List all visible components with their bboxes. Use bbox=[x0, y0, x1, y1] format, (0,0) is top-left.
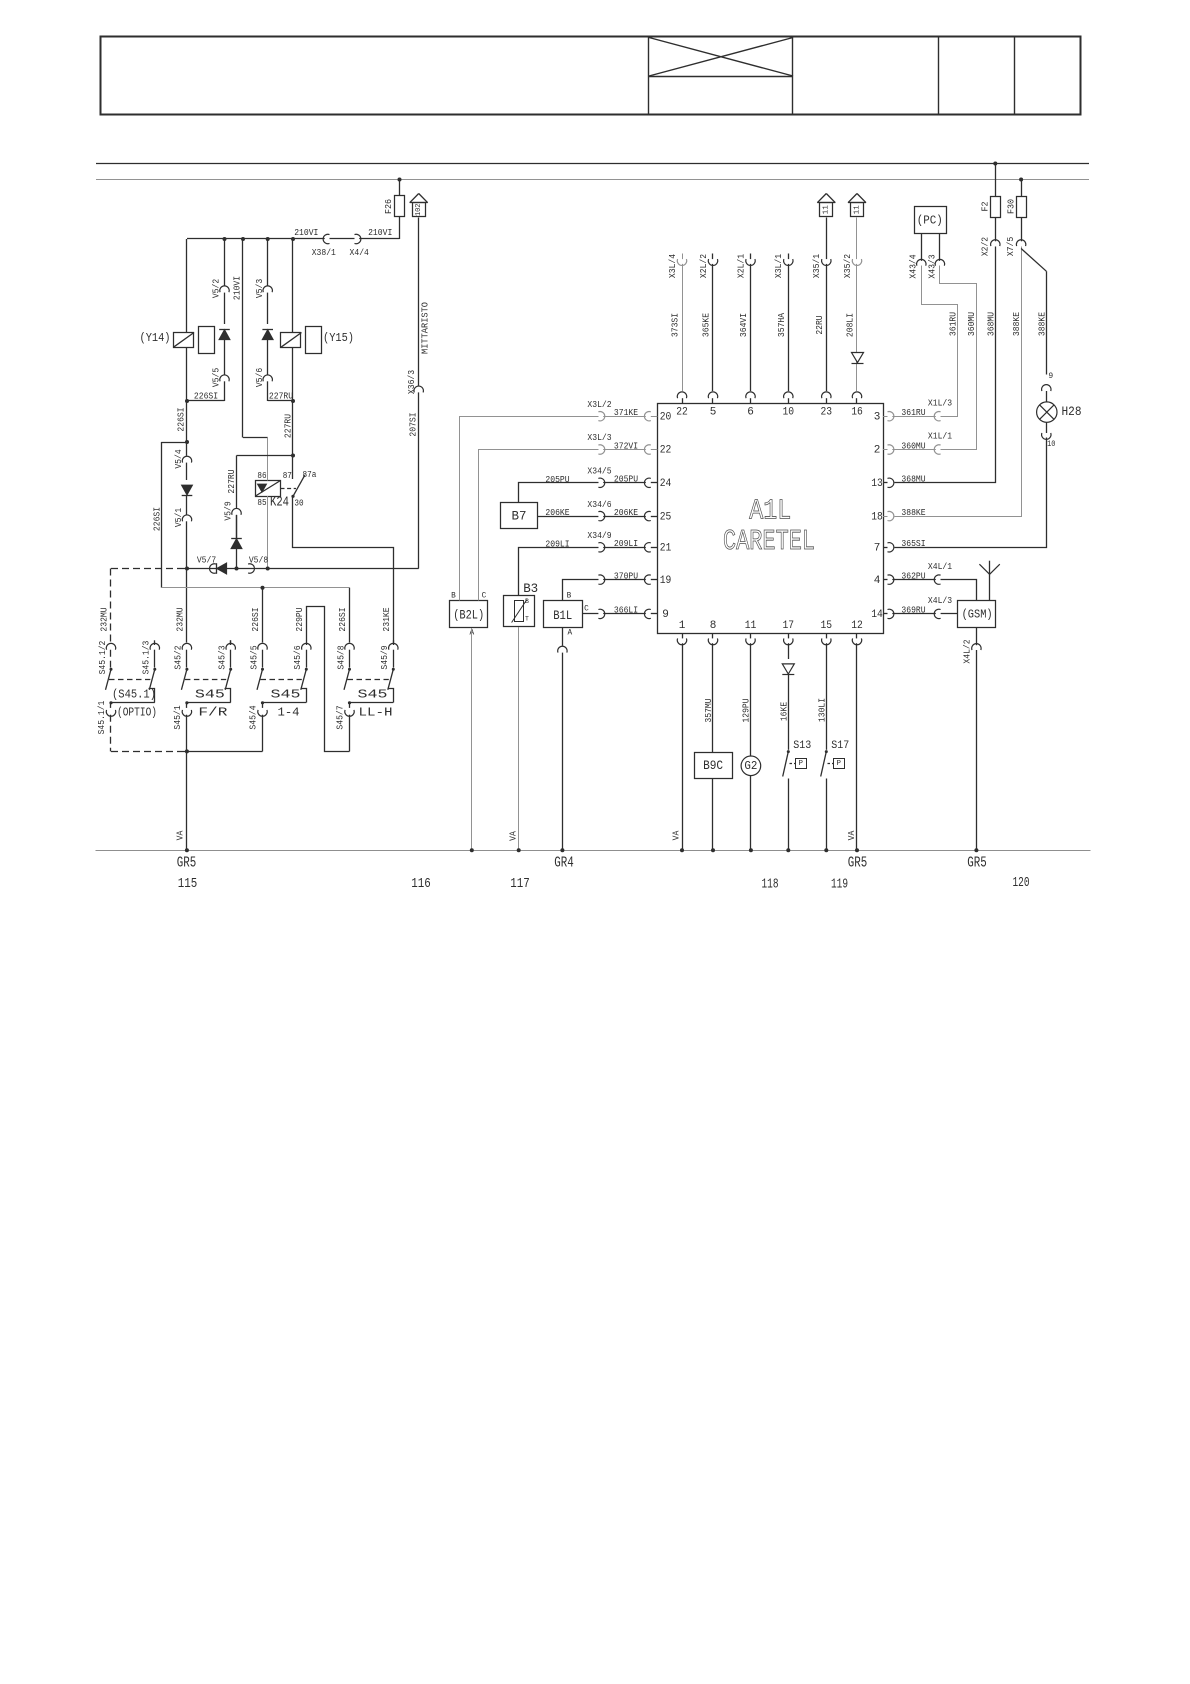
svg-text:B: B bbox=[567, 592, 572, 600]
wire: second supply rail (gray) bbox=[96, 179, 1089, 181]
node: F30 tap on gray rail bbox=[1019, 178, 1023, 182]
svg-text:227RU: 227RU bbox=[226, 469, 237, 493]
svg-text:X1L/1: X1L/1 bbox=[928, 431, 953, 442]
connector V5/3 bbox=[263, 286, 272, 292]
svg-text:V5/5: V5/5 bbox=[211, 368, 222, 387]
wire: 210VI to relay K24 (x=243) bbox=[241, 237, 245, 241]
svg-text:232MU: 232MU bbox=[175, 607, 186, 631]
svg-text:205PU: 205PU bbox=[545, 474, 569, 485]
connector S45/7 bbox=[345, 710, 354, 716]
connector X43/3 bbox=[939, 233, 941, 261]
svg-text:F30: F30 bbox=[1005, 199, 1016, 214]
diode across Y15 coil bbox=[262, 330, 273, 340]
mechanical link S45 bbox=[185, 679, 226, 681]
svg-text:S45/1: S45/1 bbox=[172, 705, 183, 730]
diode on 208LI wire (open, pointing down) bbox=[852, 353, 864, 363]
svg-text:209LI: 209LI bbox=[545, 538, 569, 549]
svg-text:S45: S45 bbox=[358, 687, 388, 701]
svg-text:18: 18 bbox=[871, 511, 883, 523]
wire: B1L pin A to ground via connector bbox=[562, 628, 564, 646]
svg-text:X35/1: X35/1 bbox=[811, 253, 822, 278]
svg-text:V5/3: V5/3 bbox=[254, 279, 265, 298]
connector pair at A1L pin 24 (205PU) bbox=[598, 478, 604, 487]
svg-text:X1L/3: X1L/3 bbox=[928, 397, 952, 408]
contact blade S45 left bbox=[181, 669, 187, 690]
svg-text:19: 19 bbox=[660, 575, 672, 587]
wire: Y14 coil feed (vertical x=187) bbox=[186, 239, 188, 333]
svg-text:1-4: 1-4 bbox=[278, 706, 300, 720]
wire: V5/3 parallel diode branch of Y15 bbox=[266, 237, 270, 241]
svg-text:226SI: 226SI bbox=[176, 407, 187, 431]
svg-text:VA: VA bbox=[671, 830, 682, 840]
svg-text:T: T bbox=[525, 616, 529, 623]
svg-text:364VI: 364VI bbox=[738, 313, 749, 337]
svg-text:X4L/3: X4L/3 bbox=[928, 595, 952, 606]
svg-text:208LI: 208LI bbox=[845, 313, 856, 337]
connector V5/5 bbox=[220, 375, 229, 381]
svg-text:S45.1/2: S45.1/2 bbox=[97, 641, 108, 675]
mechanical link (S45.1) bbox=[109, 679, 150, 681]
svg-text:X3L/4: X3L/4 bbox=[667, 253, 678, 278]
fuse F2 bbox=[995, 164, 997, 197]
contact blade (S45.1) right bbox=[149, 669, 155, 690]
diode on 16KE wire (open, pointing down) bbox=[782, 664, 794, 674]
svg-text:X43/3: X43/3 bbox=[926, 254, 937, 278]
frame: title block divider lines bbox=[648, 37, 650, 115]
svg-text:357MU: 357MU bbox=[703, 698, 714, 722]
wire: top supply rail (dark) bbox=[96, 163, 1089, 165]
svg-text:GR5: GR5 bbox=[177, 854, 197, 871]
diode V5/4-V5/1 (pointing down) bbox=[182, 485, 193, 495]
svg-text:S45: S45 bbox=[195, 687, 225, 701]
svg-text:85: 85 bbox=[257, 498, 266, 508]
K24 actuator dashed link bbox=[281, 488, 297, 490]
connector S45.1/1 bbox=[106, 710, 115, 716]
svg-text:227RU: 227RU bbox=[269, 390, 293, 401]
svg-text:B: B bbox=[525, 598, 529, 605]
connector X43/4 bbox=[921, 233, 923, 261]
wire: S45 to ground GR5 bbox=[186, 751, 188, 850]
svg-text:23: 23 bbox=[821, 406, 833, 418]
svg-text:1: 1 bbox=[679, 620, 686, 632]
wire: S45/3 stub bbox=[230, 640, 232, 645]
svg-text:S45: S45 bbox=[271, 687, 301, 701]
svg-text:9: 9 bbox=[1048, 372, 1053, 381]
component B9C bbox=[712, 643, 714, 752]
wire: K24 pin 85 down to V5/7 rail bbox=[267, 496, 269, 569]
svg-text:X2L/2: X2L/2 bbox=[698, 254, 709, 278]
svg-text:(S45.1): (S45.1) bbox=[112, 687, 156, 701]
svg-text:C: C bbox=[482, 592, 487, 600]
svg-text:K24: K24 bbox=[270, 495, 289, 511]
sheet arrow 11 on X35/2 wire bbox=[848, 194, 857, 203]
svg-text:130LI: 130LI bbox=[817, 698, 828, 722]
connector S45/5 bbox=[258, 643, 267, 649]
svg-text:10: 10 bbox=[783, 406, 795, 418]
svg-text:X2/2: X2/2 bbox=[979, 237, 990, 256]
wire: 227RU down to K24 pin 87 bbox=[292, 401, 294, 479]
wire: B3 to A1L pin 21 (209LI) bbox=[519, 548, 599, 596]
node: F2 tap on dark rail bbox=[993, 162, 997, 166]
wire: 226SI horizontal bbox=[187, 400, 225, 402]
component B1L bbox=[544, 601, 583, 628]
svg-text:368MU: 368MU bbox=[986, 312, 997, 336]
connector pair at A1L pin 25 (206KE) bbox=[598, 511, 604, 520]
connector X38/1 bbox=[323, 234, 329, 243]
svg-text:A1L: A1L bbox=[749, 494, 791, 527]
node: top bus tap V5/2 bbox=[223, 237, 227, 241]
svg-text:X34/6: X34/6 bbox=[587, 499, 611, 510]
svg-text:(B2L): (B2L) bbox=[453, 608, 484, 622]
svg-text:226SI: 226SI bbox=[151, 507, 162, 531]
connector X2/2 bbox=[995, 218, 997, 242]
svg-text:GR4: GR4 bbox=[554, 854, 574, 871]
svg-text:25: 25 bbox=[660, 511, 672, 523]
svg-text:(Y15): (Y15) bbox=[323, 331, 354, 345]
svg-text:119: 119 bbox=[831, 876, 848, 892]
connector pair at A1L pin 19 (370PU) bbox=[598, 575, 604, 584]
relay K24 coil bbox=[256, 481, 281, 497]
svg-text:16: 16 bbox=[851, 406, 863, 418]
svg-text:V5/4: V5/4 bbox=[173, 449, 184, 469]
connector pair at A1L pin 9 (366LI) bbox=[598, 609, 604, 618]
connector S45/9 bbox=[393, 640, 395, 645]
node: contact S45 left bbox=[261, 668, 264, 671]
svg-text:VA: VA bbox=[507, 831, 518, 841]
frame: crossed revision box bbox=[649, 76, 793, 78]
svg-text:X4/4: X4/4 bbox=[350, 247, 370, 258]
svg-text:14: 14 bbox=[871, 609, 883, 621]
wire: 210VI into K24 pin 86 bbox=[267, 438, 269, 481]
svg-text:S45/2: S45/2 bbox=[173, 645, 184, 669]
svg-text:X3L/3: X3L/3 bbox=[587, 432, 611, 443]
diode on V5/7 rail (pointing left) bbox=[217, 563, 227, 574]
svg-text:3: 3 bbox=[874, 411, 881, 423]
svg-text:206KE: 206KE bbox=[614, 507, 639, 518]
node: 226SI junction under Y14 bbox=[185, 399, 189, 403]
svg-text:X7/5: X7/5 bbox=[1005, 237, 1016, 256]
svg-text:227RU: 227RU bbox=[283, 414, 294, 438]
ECU A1L CARETEL bbox=[658, 404, 884, 634]
connector S45/6 bbox=[306, 640, 308, 645]
node: contact S45 right bbox=[305, 668, 308, 671]
wire: MITTARISTO feed 207SI down from arrow 102 bbox=[418, 218, 420, 386]
wire: LL-H feed from gray rail bbox=[349, 588, 351, 643]
svg-text:118: 118 bbox=[762, 876, 779, 892]
svg-text:20: 20 bbox=[660, 411, 672, 423]
svg-text:V5/9: V5/9 bbox=[223, 501, 234, 520]
svg-text:G2: G2 bbox=[744, 759, 757, 773]
connector X4/4 bbox=[355, 234, 361, 243]
node: contact S45 left bbox=[185, 668, 188, 671]
wire: A1L pin 1 to ground bbox=[682, 643, 684, 850]
wire: K24 pin 30 to S45/9 (231KE) bbox=[293, 497, 394, 643]
svg-text:388KE: 388KE bbox=[1036, 311, 1047, 336]
svg-text:365KE: 365KE bbox=[701, 312, 712, 337]
connector X7/5 bbox=[1021, 218, 1023, 242]
wire: bottom link bus of S45 groups bbox=[111, 751, 184, 753]
wire: x=187 through V5/4 bbox=[186, 401, 188, 456]
svg-text:205PU: 205PU bbox=[614, 474, 638, 485]
svg-text:102: 102 bbox=[415, 203, 423, 216]
svg-text:11: 11 bbox=[823, 205, 831, 215]
relay coil Y15 bbox=[292, 239, 294, 333]
node: contact S45 right bbox=[229, 668, 232, 671]
diode across Y14 coil bbox=[219, 330, 230, 340]
sheet arrow 11 on X35/1 wire bbox=[817, 194, 826, 203]
svg-text:X38/1: X38/1 bbox=[312, 247, 337, 258]
mechanical link S45 bbox=[261, 679, 302, 681]
svg-text:GR5: GR5 bbox=[967, 854, 987, 871]
svg-text:S45/3: S45/3 bbox=[217, 645, 228, 669]
svg-text:13: 13 bbox=[871, 478, 883, 490]
mechanical link S45 bbox=[348, 679, 389, 681]
wire: B2L pin C to A1L pin 22 (372VI) bbox=[479, 450, 599, 601]
wire: S45 F/R feed 232MU bbox=[186, 569, 188, 643]
svg-text:V5/8: V5/8 bbox=[249, 555, 268, 566]
wire 364VI to connector X2L/1 at A1L pin 6 bbox=[750, 254, 752, 260]
svg-text:X2L/1: X2L/1 bbox=[735, 253, 746, 278]
wire between connector halves X38/1-X4/4 bbox=[330, 238, 355, 240]
wire 388KE branch to lamp H28 bbox=[1021, 249, 1046, 272]
svg-text:8: 8 bbox=[710, 620, 717, 632]
bracket S45 bbox=[225, 689, 231, 703]
wire 368MU: F2 to A1L pin 13 bbox=[895, 247, 996, 483]
svg-text:CARETEL: CARETEL bbox=[723, 526, 815, 559]
wire: B7 to A1L pin 25 (206KE) bbox=[538, 516, 599, 518]
bracket S45 bbox=[301, 689, 307, 703]
wire 360MU: PC to A1L pin 2 bbox=[940, 266, 977, 450]
svg-text:X4L/1: X4L/1 bbox=[928, 561, 953, 572]
contact blade S45 right bbox=[388, 669, 394, 690]
svg-text:22: 22 bbox=[676, 406, 688, 418]
connector pair at A1L pin 22 (372VI) bbox=[598, 445, 604, 454]
switch S13 (pressure) bbox=[787, 750, 790, 753]
wire 208LI to connector X35/2 at A1L pin 16 bbox=[856, 254, 858, 260]
svg-text:S45.1/1: S45.1/1 bbox=[96, 700, 107, 734]
fuse F30 bbox=[1021, 180, 1023, 197]
connector pair at A1L pin 21 (209LI) bbox=[598, 543, 604, 552]
connector V5/7 bbox=[210, 564, 216, 573]
wire 357HA to connector X3L/1 at A1L pin 10 bbox=[788, 254, 790, 260]
svg-text:7: 7 bbox=[874, 543, 881, 555]
svg-text:226SI: 226SI bbox=[337, 607, 348, 631]
svg-text:6: 6 bbox=[747, 406, 754, 418]
svg-text:C: C bbox=[584, 605, 589, 613]
wire: A1L pin 15 to S17 bbox=[826, 643, 828, 750]
svg-text:22: 22 bbox=[660, 445, 672, 457]
svg-text:B: B bbox=[451, 592, 456, 600]
svg-text:357HA: 357HA bbox=[776, 312, 787, 337]
node: contact S45 left bbox=[348, 668, 351, 671]
svg-text:366LI: 366LI bbox=[614, 605, 638, 616]
K24 contact arm to 87a bbox=[293, 475, 305, 496]
svg-text:12: 12 bbox=[851, 620, 863, 632]
svg-text:X36/3: X36/3 bbox=[406, 370, 417, 394]
wire: 229PU loop S45/6 to S45/7 bbox=[307, 607, 350, 752]
svg-text:15: 15 bbox=[821, 620, 833, 632]
svg-text:S13: S13 bbox=[793, 740, 811, 752]
svg-text:S45/9: S45/9 bbox=[379, 645, 390, 669]
svg-text:9: 9 bbox=[662, 609, 669, 621]
wire: GSM ground via X4L/2 bbox=[976, 627, 978, 645]
wire 373SI to connector X3L/4 at A1L pin 22 bbox=[682, 254, 684, 260]
svg-text:MITTARISTO: MITTARISTO bbox=[420, 302, 430, 354]
svg-text:210VI: 210VI bbox=[294, 227, 318, 238]
svg-text:209LI: 209LI bbox=[614, 538, 638, 549]
connector S45/8 bbox=[345, 643, 354, 649]
svg-text:360MU: 360MU bbox=[966, 312, 977, 336]
wire: B7 to A1L pin 24 (205PU) bbox=[519, 483, 599, 503]
switch S17 (pressure) bbox=[825, 750, 828, 753]
node: junction 227RU / V5-9 branch bbox=[291, 454, 295, 458]
svg-text:V5/6: V5/6 bbox=[254, 368, 265, 387]
sheet arrow 102 bbox=[410, 194, 419, 203]
node: contact (S45.1) left bbox=[110, 668, 113, 671]
svg-text:87a: 87a bbox=[303, 470, 317, 480]
contact blade S45 right bbox=[225, 669, 231, 690]
connector V5/8 bbox=[248, 564, 254, 573]
svg-text:X34/5: X34/5 bbox=[587, 466, 611, 477]
svg-text:VA: VA bbox=[175, 830, 186, 840]
svg-text:S45/4: S45/4 bbox=[248, 705, 259, 730]
svg-text:B9C: B9C bbox=[703, 759, 723, 773]
fuse F26 bbox=[395, 196, 405, 217]
connector on B1L ground lead bbox=[558, 646, 567, 652]
svg-text:116: 116 bbox=[411, 876, 431, 892]
svg-text:S45/8: S45/8 bbox=[335, 645, 346, 669]
svg-text:10: 10 bbox=[1047, 440, 1056, 449]
node: contact S45 right bbox=[392, 668, 395, 671]
component PC box bbox=[915, 207, 947, 234]
svg-text:(PC): (PC) bbox=[917, 213, 943, 227]
svg-text:210VI: 210VI bbox=[232, 276, 243, 300]
wire: Y14 coil to node 226SI bbox=[186, 347, 188, 401]
component B7 bbox=[501, 503, 538, 529]
svg-text:231KE: 231KE bbox=[381, 607, 392, 632]
svg-text:X3L/2: X3L/2 bbox=[587, 399, 611, 410]
node: K24 pin 30 pivot bbox=[291, 495, 294, 498]
connector V5/4 bbox=[182, 456, 191, 462]
svg-text:24: 24 bbox=[660, 478, 672, 490]
svg-text:X35/2: X35/2 bbox=[842, 254, 853, 278]
svg-text:22RU: 22RU bbox=[814, 315, 825, 334]
node: 227RU junction under Y15 bbox=[291, 399, 295, 403]
wire: left branch to 226SI vertical bbox=[185, 440, 189, 444]
bracket S45 bbox=[388, 689, 394, 703]
svg-text:5: 5 bbox=[710, 406, 717, 418]
svg-text:120: 120 bbox=[1013, 875, 1030, 891]
connector V5/2 bbox=[220, 286, 229, 292]
svg-text:H28: H28 bbox=[1062, 405, 1082, 419]
antenna bbox=[989, 561, 991, 601]
svg-text:87: 87 bbox=[283, 471, 292, 481]
component GSM module bbox=[958, 601, 996, 628]
wire 365SI: lamp to A1L pin 7 bbox=[895, 438, 1047, 548]
svg-text:B1L: B1L bbox=[553, 608, 572, 623]
connector X4L/2 bbox=[972, 644, 981, 650]
svg-text:LL-H: LL-H bbox=[359, 706, 393, 720]
svg-text:S17: S17 bbox=[831, 740, 849, 752]
contact blade S45 right bbox=[301, 669, 307, 690]
connector S45/1 bbox=[182, 710, 191, 716]
svg-text:117: 117 bbox=[510, 876, 530, 892]
svg-text:226SI: 226SI bbox=[194, 390, 218, 401]
svg-text:11: 11 bbox=[745, 620, 757, 632]
svg-text:B3: B3 bbox=[523, 581, 538, 596]
svg-text:2: 2 bbox=[874, 445, 881, 457]
wire: A1L pin 17 with diode to S13 bbox=[788, 643, 790, 659]
wire 362PU: A1L pin 4 to GSM bbox=[941, 580, 977, 601]
svg-text:372VI: 372VI bbox=[614, 440, 638, 451]
svg-text:11: 11 bbox=[853, 205, 861, 215]
contact blade S45 left bbox=[344, 669, 350, 690]
svg-text:S45/5: S45/5 bbox=[248, 645, 259, 669]
svg-text:229PU: 229PU bbox=[294, 607, 305, 631]
svg-text:X34/9: X34/9 bbox=[587, 530, 611, 541]
wire: Y15 coil to node 227RU bbox=[292, 347, 294, 401]
wire: B1L pin B to A1L pin 19 (370PU) bbox=[563, 580, 599, 601]
svg-text:86: 86 bbox=[257, 471, 266, 481]
svg-text:206KE: 206KE bbox=[545, 507, 570, 518]
svg-text:VA: VA bbox=[846, 830, 857, 840]
svg-text:373SI: 373SI bbox=[670, 313, 681, 337]
svg-text:S45/7: S45/7 bbox=[335, 705, 346, 729]
svg-text:210VI: 210VI bbox=[368, 227, 392, 238]
wire 388KE: X7/5 to A1L pin 18 bbox=[895, 247, 1022, 517]
node: junction on gray rail feeding F26 bbox=[398, 178, 402, 182]
component G2 (sensor) bbox=[750, 643, 752, 756]
svg-text:371KE: 371KE bbox=[614, 407, 639, 418]
svg-text:388KE: 388KE bbox=[1011, 311, 1022, 336]
diode V5/9 (pointing up) bbox=[231, 539, 242, 549]
connector V5/1 bbox=[186, 496, 188, 515]
wire: F26 to connector X4/4 (210VI) bbox=[399, 217, 401, 240]
svg-text:V5/1: V5/1 bbox=[173, 507, 184, 527]
svg-text:F26: F26 bbox=[383, 199, 394, 214]
svg-text:A: A bbox=[567, 630, 572, 638]
wire 361RU: PC to A1L pin 3 bbox=[922, 266, 958, 417]
connector V5/6 bbox=[263, 375, 272, 381]
connector S45/2 bbox=[182, 643, 191, 649]
wire: B2L pin B to A1L pin 20 (371KE) bbox=[460, 417, 599, 601]
svg-text:GR5: GR5 bbox=[848, 854, 868, 871]
component B2L (radio/unit) bbox=[450, 601, 488, 628]
wire: B1L pin C to A1L pin 9 (366LI) bbox=[582, 613, 598, 615]
svg-text:S45/6: S45/6 bbox=[292, 645, 303, 669]
svg-text:17: 17 bbox=[783, 620, 795, 632]
svg-text:232MU: 232MU bbox=[99, 607, 110, 631]
wire: 1-4 group feed 226SI from gray rail bbox=[161, 587, 349, 589]
connector V5/9 bbox=[232, 508, 241, 514]
connector pair at A1L pin 20 (371KE) bbox=[598, 412, 604, 421]
svg-text:16KE: 16KE bbox=[779, 701, 790, 721]
wire: V5/7 horizontal rail y=568.5 bbox=[111, 568, 184, 570]
wire: A1L pin 12 to ground bbox=[856, 643, 858, 850]
svg-text:F/R: F/R bbox=[198, 706, 227, 720]
ground rail GR5/GR4 bbox=[96, 850, 1091, 852]
svg-text:(GSM): (GSM) bbox=[962, 607, 993, 621]
wire 369RU: A1L pin 14 to GSM bbox=[941, 613, 958, 615]
svg-text:P: P bbox=[837, 760, 842, 768]
contact blade (S45.1) left bbox=[106, 669, 112, 690]
connector S45/3 bbox=[230, 640, 232, 645]
svg-text:S45.1/3: S45.1/3 bbox=[141, 641, 152, 675]
svg-text:129PU: 129PU bbox=[741, 698, 752, 722]
svg-text:370PU: 370PU bbox=[614, 570, 638, 581]
svg-text:226SI: 226SI bbox=[250, 607, 261, 631]
optional switch group S45.1 (OPTIO), dashed bbox=[110, 569, 112, 643]
